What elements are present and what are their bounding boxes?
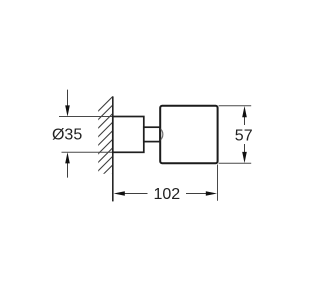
57 dimension top extension line bbox=[219, 105, 252, 107]
102 left arrow bbox=[114, 191, 125, 196]
connector neck bbox=[144, 127, 160, 141]
dimension extension line: cylinder bottom (Ø35 bottom) bbox=[62, 151, 113, 153]
57 dimension line lower segment bbox=[244, 144, 246, 154]
Ø35 dimension top stub line bbox=[67, 90, 69, 107]
Ø35 dimension bottom stub line bbox=[67, 163, 69, 178]
102 dimension line left segment bbox=[123, 193, 148, 195]
Ø35 bottom arrow (up) bbox=[65, 152, 70, 163]
102 right arrow bbox=[206, 191, 217, 196]
102 dimension line right segment bbox=[186, 193, 208, 195]
cup holder body bbox=[160, 106, 217, 164]
svg-text:102: 102 bbox=[153, 186, 180, 203]
57 top arrow (up) bbox=[242, 106, 247, 117]
102 dimension right extension line bbox=[217, 165, 219, 201]
57 dimension line upper segment bbox=[244, 116, 246, 126]
dimension extension line: cylinder top (Ø35 top) bbox=[59, 116, 113, 118]
wall line bbox=[112, 96, 114, 201]
svg-text:57: 57 bbox=[235, 128, 253, 145]
57 bottom arrow (down) bbox=[242, 152, 247, 163]
57 dimension bottom extension line bbox=[219, 162, 252, 164]
cylinder mount body bbox=[113, 117, 144, 153]
Ø35 top arrow (down) bbox=[65, 105, 70, 116]
wall hatching bbox=[96, 95, 114, 190]
connector rounded cap arc bbox=[160, 128, 163, 140]
svg-text:Ø35: Ø35 bbox=[52, 126, 82, 143]
